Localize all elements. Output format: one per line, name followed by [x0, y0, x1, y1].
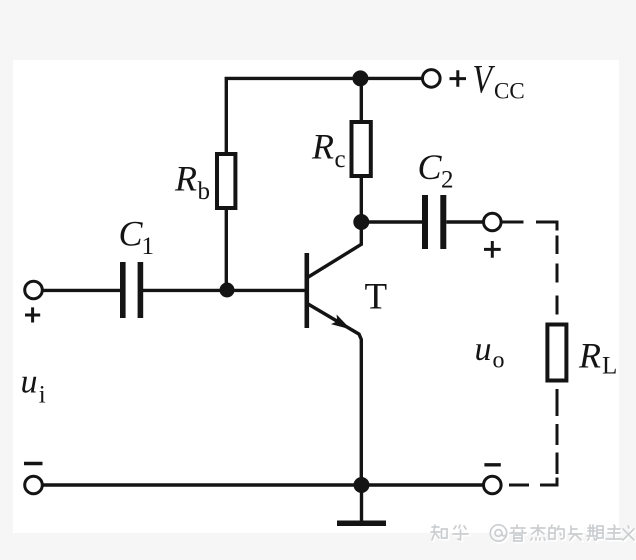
svg-text:u: u: [21, 364, 38, 401]
svg-text:R: R: [174, 159, 197, 199]
svg-text:1: 1: [142, 233, 155, 260]
svg-text:T: T: [365, 277, 388, 318]
svg-text:2: 2: [441, 167, 454, 194]
svg-text:u: u: [475, 331, 492, 368]
svg-text:R: R: [578, 336, 601, 376]
svg-text:V: V: [473, 57, 496, 101]
svg-text:C: C: [119, 214, 144, 254]
svg-text:b: b: [198, 178, 211, 205]
svg-text:c: c: [335, 146, 346, 173]
svg-text:CC: CC: [494, 79, 525, 104]
svg-text:i: i: [39, 382, 46, 409]
svg-text:C: C: [418, 147, 443, 187]
svg-text:o: o: [493, 348, 505, 374]
svg-text:R: R: [311, 127, 334, 167]
svg-text:L: L: [602, 353, 617, 380]
